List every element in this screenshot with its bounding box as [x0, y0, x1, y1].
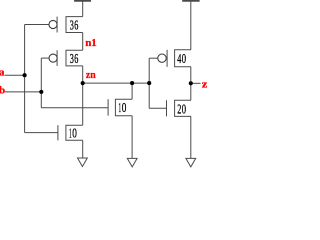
svg-text:b: b: [0, 84, 5, 96]
svg-text:6: 6: [74, 19, 78, 34]
svg-text:z: z: [202, 79, 207, 91]
svg-text:0: 0: [72, 126, 77, 141]
svg-text:3: 3: [70, 52, 74, 67]
svg-text:0: 0: [182, 102, 186, 117]
svg-text:3: 3: [70, 19, 74, 34]
svg-text:4: 4: [177, 52, 181, 67]
svg-text:0: 0: [182, 52, 186, 67]
svg-text:6: 6: [74, 52, 78, 67]
svg-text:n1: n1: [85, 37, 97, 49]
svg-text:zn: zn: [86, 69, 96, 81]
svg-text:2: 2: [177, 102, 181, 117]
svg-text:a: a: [0, 67, 5, 79]
svg-text:0: 0: [122, 101, 127, 116]
